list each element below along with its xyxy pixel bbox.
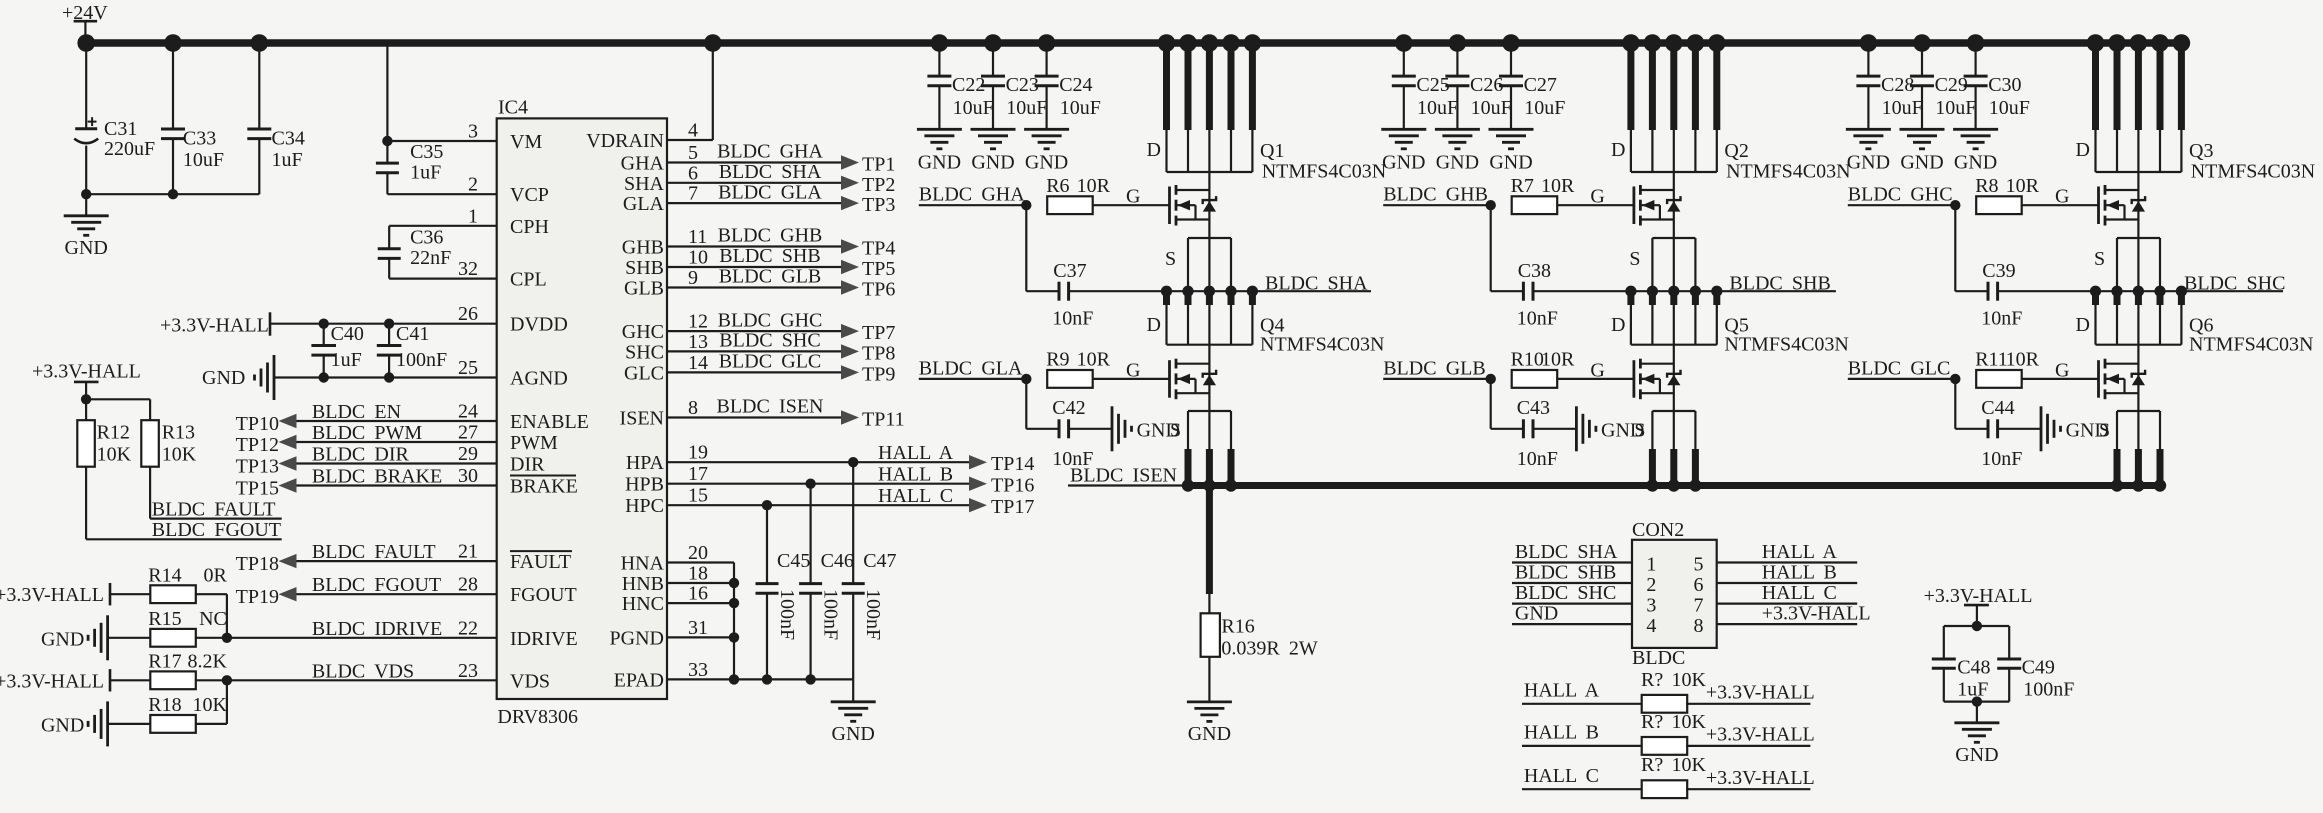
transistor Q5 drain comb — [1627, 291, 1634, 305]
svg-text:+3.3V-HALL: +3.3V-HALL — [1706, 681, 1815, 703]
junction gate/cap C44 — [1950, 374, 1960, 384]
svg-text:S: S — [2094, 248, 2105, 270]
svg-text:ENABLE: ENABLE — [510, 411, 589, 433]
wire net BLDC IDRIVE pin22 — [227, 637, 497, 639]
svg-text:TP7: TP7 — [862, 322, 895, 344]
CON2 pin 1 wire — [1512, 561, 1632, 563]
svg-text:C36: C36 — [410, 227, 443, 249]
svg-text:BLDC FGOUT: BLDC FGOUT — [152, 519, 281, 541]
svg-text:17: 17 — [688, 463, 708, 485]
capacitor C40 1uF — [319, 319, 329, 329]
svg-text:10uF: 10uF — [953, 97, 994, 119]
wire gate lead — [1093, 204, 1170, 206]
junction VDRAIN on rail — [704, 34, 722, 52]
svg-text:BLDC SHC: BLDC SHC — [1515, 582, 1616, 604]
junction phase node — [1711, 286, 1722, 297]
junction VM/C35 — [382, 136, 392, 146]
svg-text:1uF: 1uF — [272, 149, 303, 171]
svg-text:D: D — [1611, 314, 1625, 336]
svg-text:BLDC GLC: BLDC GLC — [719, 351, 822, 373]
svg-text:GND: GND — [1955, 744, 1998, 766]
svg-text:BLDC SHB: BLDC SHB — [1729, 272, 1830, 294]
wire C48/C49 top — [1944, 625, 2009, 627]
svg-text:DRV8306: DRV8306 — [497, 706, 578, 728]
svg-text:C41: C41 — [396, 323, 429, 345]
svg-text:20: 20 — [688, 542, 708, 564]
svg-text:FAULT: FAULT — [510, 551, 571, 573]
svg-text:10nF: 10nF — [1052, 308, 1093, 330]
svg-text:10K: 10K — [1671, 711, 1706, 733]
testpoint TP6 arrow — [841, 280, 859, 294]
svg-text:G: G — [1126, 359, 1140, 381]
wire net HALL A pull-up — [1522, 703, 1643, 705]
svg-text:GND: GND — [1382, 152, 1425, 174]
junction phase node — [1182, 286, 1193, 297]
svg-text:BLDC DIR: BLDC DIR — [312, 444, 410, 466]
svg-text:22nF: 22nF — [410, 247, 451, 269]
ground below C23 — [971, 128, 1016, 131]
resistor R14 0R — [110, 593, 151, 595]
svg-text:Q1: Q1 — [1260, 140, 1284, 162]
svg-text:4: 4 — [1646, 615, 1656, 637]
svg-text:R8: R8 — [1975, 175, 1998, 197]
testpoint TP17 arrow — [969, 498, 987, 512]
svg-text:GND: GND — [1847, 152, 1890, 174]
wire gate lead — [2022, 204, 2099, 206]
junction phase node — [1647, 286, 1658, 297]
CON2 pin 5 wire — [1717, 561, 1858, 563]
svg-text:NTMFS4C03N: NTMFS4C03N — [2189, 334, 2313, 356]
svg-text:21: 21 — [458, 541, 478, 563]
svg-text:BLDC GHC: BLDC GHC — [718, 309, 823, 331]
svg-text:+3.3V-HALL: +3.3V-HALL — [0, 670, 104, 692]
testpoint TP2 arrow — [841, 176, 859, 190]
svg-text:R?: R? — [1641, 754, 1663, 776]
svg-text:22: 22 — [458, 617, 478, 639]
svg-text:GND: GND — [832, 723, 875, 745]
junction on rail at C31 — [77, 34, 95, 52]
svg-text:GND: GND — [1900, 152, 1943, 174]
svg-text:HALL A: HALL A — [1762, 541, 1838, 563]
capacitor C47 100nF — [848, 457, 858, 467]
svg-text:C24: C24 — [1059, 74, 1092, 96]
resistor R? 10K — [1642, 695, 1688, 713]
svg-text:TP4: TP4 — [862, 238, 895, 260]
svg-text:8: 8 — [688, 397, 698, 419]
wire pin4 VDRAIN riser — [667, 139, 713, 141]
svg-text:10R: 10R — [1077, 175, 1111, 197]
capacitor C36 22nF — [388, 226, 390, 249]
junction C46 bottom — [805, 674, 815, 684]
wire net BLDC SHA — [1167, 290, 1372, 292]
junction rail at C29 — [1913, 34, 1931, 52]
junction gate/cap C43 — [1486, 374, 1496, 384]
testpoint TP1 arrow — [841, 155, 859, 169]
transistor Q4 drain comb — [1163, 291, 1170, 305]
junction on rail at C34 — [250, 34, 268, 52]
junction HN bus — [729, 632, 739, 642]
capacitor C25 10uF — [1403, 43, 1405, 76]
svg-text:TP5: TP5 — [862, 258, 895, 280]
svg-text:GND: GND — [1954, 152, 1997, 174]
junction rail at C28 — [1860, 34, 1878, 52]
svg-text:PGND: PGND — [610, 627, 664, 649]
svg-text:R?: R? — [1641, 711, 1663, 733]
capacitor C44 10nF — [1954, 379, 1956, 429]
svg-text:BLDC VDS: BLDC VDS — [312, 660, 414, 682]
svg-text:23: 23 — [458, 660, 478, 682]
svg-text:D: D — [2076, 139, 2090, 161]
svg-text:R9: R9 — [1046, 349, 1069, 371]
svg-text:15: 15 — [688, 485, 708, 507]
svg-text:5: 5 — [1694, 554, 1704, 576]
svg-text:FGOUT: FGOUT — [510, 584, 577, 606]
testpoint TP8 arrow — [841, 344, 859, 358]
junction rail at C26 — [1449, 34, 1467, 52]
testpoint TP14 arrow — [969, 455, 987, 469]
svg-text:+3.3V-HALL: +3.3V-HALL — [160, 315, 269, 337]
capacitor C46 100nF — [805, 479, 815, 489]
svg-text:HALL C: HALL C — [1762, 582, 1837, 604]
junction ISEN bus — [2111, 479, 2123, 491]
capacitor C39 10nF — [1954, 205, 1956, 291]
svg-text:1: 1 — [468, 205, 478, 227]
svg-text:10R: 10R — [2006, 175, 2040, 197]
wire net BLDC GHB to TP4 — [667, 245, 841, 247]
svg-text:C44: C44 — [1981, 397, 2014, 419]
transistor Q6 NTMFS4C03N symbol — [2097, 360, 2100, 398]
wire to +3.3V-HALL — [1686, 788, 1810, 790]
svg-text:5: 5 — [688, 142, 698, 164]
capacitor C31 220uF electrolytic — [85, 43, 87, 129]
wire net HALL C pull-up — [1522, 788, 1643, 790]
transistor Q1 NTMFS4C03N symbol — [1168, 187, 1171, 225]
transistor Q1 source comb — [1188, 237, 1231, 239]
transistor Q3 source comb — [2117, 237, 2160, 239]
svg-text:GND: GND — [41, 714, 84, 736]
capacitor C29 10uF — [1921, 43, 1923, 76]
IC IC4 DRV8306 body — [497, 118, 667, 699]
transistor Q3 drain comb — [2087, 34, 2105, 52]
ground GND below C31 — [85, 194, 87, 216]
svg-text:24: 24 — [458, 401, 478, 423]
svg-text:GND: GND — [202, 367, 245, 389]
junction C48/C49 bottom — [1972, 696, 1982, 706]
svg-text:16: 16 — [688, 583, 708, 605]
testpoint TP12 arrow — [279, 435, 297, 449]
ground below C28 — [1846, 128, 1891, 131]
svg-text:R14: R14 — [148, 564, 181, 586]
svg-text:S: S — [2099, 420, 2110, 442]
wire +24V rail — [78, 39, 2186, 47]
svg-text:10nF: 10nF — [1517, 308, 1558, 330]
wire pin25 AGND — [274, 376, 497, 378]
wire net BLDC SHB — [1631, 290, 1836, 292]
capacitor C22 10uF — [938, 43, 940, 76]
svg-text:29: 29 — [458, 443, 478, 465]
svg-text:HNA: HNA — [621, 553, 665, 575]
transistor Q5 NTMFS4C03N symbol — [1633, 360, 1636, 398]
testpoint TP11 arrow — [841, 410, 859, 424]
junction HN bus — [729, 578, 739, 588]
svg-text:D: D — [1147, 314, 1161, 336]
junction ISEN bus — [1225, 479, 1237, 491]
svg-text:7: 7 — [1694, 595, 1704, 617]
svg-text:Q2: Q2 — [1724, 140, 1748, 162]
svg-text:ISEN: ISEN — [620, 408, 664, 430]
wire net BLDC SHC to TP8 — [667, 350, 841, 352]
junction ISEN bus — [1646, 479, 1658, 491]
svg-text:GND: GND — [1489, 152, 1532, 174]
CON2 pin 8 wire — [1717, 623, 1858, 625]
svg-text:BLDC ISEN: BLDC ISEN — [717, 396, 824, 418]
junction ISEN bus — [1668, 479, 1680, 491]
svg-text:C26: C26 — [1470, 74, 1503, 96]
svg-text:TP16: TP16 — [991, 475, 1034, 497]
junction rail at C22 — [931, 34, 949, 52]
ground after C44 — [2040, 406, 2043, 451]
svg-text:BLDC SHA: BLDC SHA — [1515, 541, 1618, 563]
testpoint TP3 arrow — [841, 196, 859, 210]
svg-text:BLDC PWM: BLDC PWM — [312, 422, 423, 444]
svg-text:C22: C22 — [952, 74, 985, 96]
svg-text:BLDC GLB: BLDC GLB — [1383, 357, 1486, 379]
junction phase node — [1668, 286, 1679, 297]
svg-text:1uF: 1uF — [331, 349, 362, 371]
wire R12 to BLDC FGOUT stub — [85, 467, 87, 540]
CON2 pin 4 wire — [1512, 623, 1632, 625]
svg-text:CPL: CPL — [510, 269, 547, 291]
svg-text:BLDC FAULT: BLDC FAULT — [312, 541, 436, 563]
svg-text:10uF: 10uF — [1060, 97, 1101, 119]
svg-text:100nF: 100nF — [396, 349, 447, 371]
svg-text:D: D — [2076, 314, 2090, 336]
svg-text:C38: C38 — [1518, 260, 1551, 282]
capacitor C34 1uF — [258, 43, 260, 129]
svg-text:+3.3V-HALL: +3.3V-HALL — [32, 361, 141, 383]
wire gate lead — [2022, 378, 2099, 380]
svg-text:C42: C42 — [1052, 397, 1085, 419]
svg-text:C28: C28 — [1881, 74, 1914, 96]
wire net BLDC GHC to TP7 — [667, 330, 841, 332]
svg-text:3: 3 — [468, 121, 478, 143]
transistor Q2 drain comb — [1622, 34, 1640, 52]
svg-text:26: 26 — [458, 303, 478, 325]
svg-text:IC4: IC4 — [498, 97, 528, 119]
ground below C48/C49 — [1976, 702, 1978, 723]
svg-text:6: 6 — [688, 162, 698, 184]
svg-text:TP1: TP1 — [862, 154, 895, 176]
svg-text:8.2K: 8.2K — [187, 651, 227, 673]
junction phase node — [2133, 286, 2144, 297]
svg-text:32: 32 — [458, 258, 478, 280]
ground below C29 — [1900, 128, 1945, 131]
svg-text:GND: GND — [41, 628, 84, 650]
svg-text:R17: R17 — [148, 651, 181, 673]
junction gate/cap C42 — [1021, 374, 1031, 384]
transistor Q5 source comb — [1652, 410, 1695, 412]
resistor R18 10K — [108, 723, 152, 725]
svg-text:Q3: Q3 — [2189, 140, 2213, 162]
svg-text:R10: R10 — [1511, 349, 1544, 371]
svg-text:TP2: TP2 — [862, 174, 895, 196]
svg-text:4: 4 — [688, 120, 698, 142]
wire ISEN bus — [1188, 482, 2160, 489]
svg-text:C35: C35 — [410, 141, 443, 163]
svg-text:+3.3V-HALL: +3.3V-HALL — [1762, 603, 1871, 625]
resistor R9 10R — [1047, 370, 1093, 388]
ground after C43 — [1575, 406, 1578, 451]
svg-text:GND: GND — [918, 152, 961, 174]
svg-text:10: 10 — [688, 247, 708, 269]
junction rail at C24 — [1038, 34, 1056, 52]
junction VDS — [222, 675, 232, 685]
wire to +3.3V-HALL — [1686, 745, 1810, 747]
svg-text:D: D — [1147, 139, 1161, 161]
junction C45 bottom — [762, 674, 772, 684]
capacitor C27 10uF — [1510, 43, 1512, 76]
wire HNA/HNB/HNC/PGND/EPAD bus — [667, 561, 734, 563]
wire to +3.3V-HALL — [1686, 703, 1810, 705]
capacitor C49 100nF — [2008, 626, 2010, 659]
wire net BLDC DIR pin29 — [297, 462, 497, 464]
svg-text:NTMFS4C03N: NTMFS4C03N — [1724, 334, 1848, 356]
ground below C27 — [1489, 128, 1534, 131]
ground below C30 — [1953, 128, 1998, 131]
testpoint TP15 arrow — [279, 478, 297, 492]
svg-text:3: 3 — [1646, 595, 1656, 617]
svg-text:IDRIVE: IDRIVE — [510, 628, 578, 650]
capacitor C45 100nF — [762, 500, 772, 510]
svg-text:HALL B: HALL B — [1524, 722, 1599, 744]
wire ISEN drop to R16 — [1206, 486, 1213, 595]
wire net BLDC GHA — [919, 204, 1027, 206]
resistor R12 10K — [77, 420, 95, 467]
svg-text:10R: 10R — [2006, 349, 2040, 371]
resistor R16 0.039R 2W — [1201, 613, 1220, 657]
wire net BLDC ISEN to TP11 — [667, 416, 841, 418]
wire net BLDC GHB — [1383, 204, 1491, 206]
wire net BLDC SHB to TP5 — [667, 266, 841, 268]
wire VM riser from rail — [386, 43, 388, 141]
svg-text:19: 19 — [688, 442, 708, 464]
svg-text:10nF: 10nF — [1981, 448, 2022, 470]
ground below C22 — [917, 128, 962, 131]
wire gate lead — [1557, 204, 1634, 206]
svg-text:NTMFS4C03N: NTMFS4C03N — [1260, 334, 1384, 356]
svg-text:BLDC SHC: BLDC SHC — [719, 330, 820, 352]
svg-text:+3.3V-HALL: +3.3V-HALL — [0, 584, 104, 606]
wire BLDC ISEN — [1068, 484, 1188, 486]
svg-text:14: 14 — [688, 352, 708, 374]
wire R13 to BLDC FAULT stub — [149, 467, 151, 519]
junction rail at C30 — [1967, 34, 1985, 52]
svg-text:DVDD: DVDD — [510, 314, 568, 336]
svg-text:TP14: TP14 — [991, 453, 1034, 475]
testpoint TP18 arrow — [279, 554, 297, 568]
transistor Q4 NTMFS4C03N symbol — [1168, 360, 1171, 398]
svg-text:100nF: 100nF — [2023, 678, 2074, 700]
wire R12/R13 tops — [86, 398, 150, 400]
wire gate lead — [1557, 378, 1634, 380]
resistor R17 8.2K — [110, 679, 151, 681]
svg-text:31: 31 — [688, 617, 708, 639]
junction phase node — [1247, 286, 1258, 297]
svg-text:R6: R6 — [1046, 175, 1069, 197]
svg-text:BLDC FAULT: BLDC FAULT — [152, 498, 276, 520]
resistor R? 10K — [1642, 737, 1688, 755]
CON2 pin 6 wire — [1717, 582, 1858, 584]
svg-text:BLDC ISEN: BLDC ISEN — [1070, 465, 1177, 487]
resistor R11 10R — [1976, 370, 2022, 388]
wire cap bottoms — [86, 193, 259, 195]
svg-text:S: S — [1165, 248, 1176, 270]
junction ISEN bus — [1182, 479, 1194, 491]
svg-text:1uF: 1uF — [1957, 678, 1988, 700]
svg-text:BLDC GHC: BLDC GHC — [1848, 184, 1953, 206]
ground after C42 — [1111, 406, 1114, 451]
svg-text:8: 8 — [1694, 615, 1704, 637]
wire net BLDC GLC — [1848, 378, 1956, 380]
svg-text:2: 2 — [468, 174, 478, 196]
svg-text:TP9: TP9 — [862, 363, 895, 385]
CON2 pin 2 wire — [1512, 582, 1632, 584]
svg-text:C43: C43 — [1517, 397, 1550, 419]
wire pin1 CPH — [389, 225, 497, 227]
testpoint TP13 arrow — [279, 456, 297, 470]
junction at C33 bottom — [168, 189, 178, 199]
wire net BLDC PWM pin27 — [297, 441, 497, 443]
capacitor C24 10uF — [1045, 43, 1047, 76]
svg-text:GLC: GLC — [624, 362, 664, 384]
svg-text:11: 11 — [688, 226, 707, 248]
svg-text:BLDC GHB: BLDC GHB — [718, 225, 823, 247]
svg-text:TP15: TP15 — [236, 478, 279, 500]
transistor Q2 source comb — [1652, 237, 1695, 239]
ground below C24 — [1024, 128, 1069, 131]
wire net BLDC SHA to TP2 — [667, 182, 841, 184]
svg-text:BLDC GHA: BLDC GHA — [717, 141, 823, 163]
svg-text:C29: C29 — [1935, 74, 1968, 96]
junction ISEN bus — [1689, 479, 1701, 491]
svg-text:R16: R16 — [1221, 616, 1254, 638]
capacitor C37 10nF — [1025, 205, 1027, 291]
junction HN bus — [729, 674, 739, 684]
svg-text:7: 7 — [688, 183, 698, 205]
svg-text:18: 18 — [688, 563, 708, 585]
transistor Q2 NTMFS4C03N symbol — [1633, 187, 1636, 225]
svg-text:GHB: GHB — [622, 237, 664, 259]
svg-text:C30: C30 — [1988, 74, 2021, 96]
svg-text:C49: C49 — [2022, 657, 2055, 679]
wire net BLDC GLB — [1383, 378, 1491, 380]
svg-text:D: D — [1611, 139, 1625, 161]
svg-text:VDS: VDS — [510, 670, 550, 692]
svg-text:BLDC IDRIVE: BLDC IDRIVE — [312, 618, 442, 640]
svg-text:2: 2 — [1646, 574, 1656, 596]
junction gate/cap C38 — [1486, 200, 1496, 210]
svg-text:SHC: SHC — [625, 341, 664, 363]
junction phase node — [2090, 286, 2101, 297]
svg-text:NTMFS4C03N: NTMFS4C03N — [1726, 161, 1850, 183]
svg-text:HALL B: HALL B — [878, 464, 953, 486]
wire net HALL A — [667, 461, 969, 463]
wire R17 to junction — [195, 679, 227, 681]
junction phase node — [1204, 286, 1215, 297]
svg-text:10K: 10K — [1671, 669, 1706, 691]
svg-text:TP6: TP6 — [862, 279, 895, 301]
capacitor C28 10uF — [1867, 43, 1869, 76]
